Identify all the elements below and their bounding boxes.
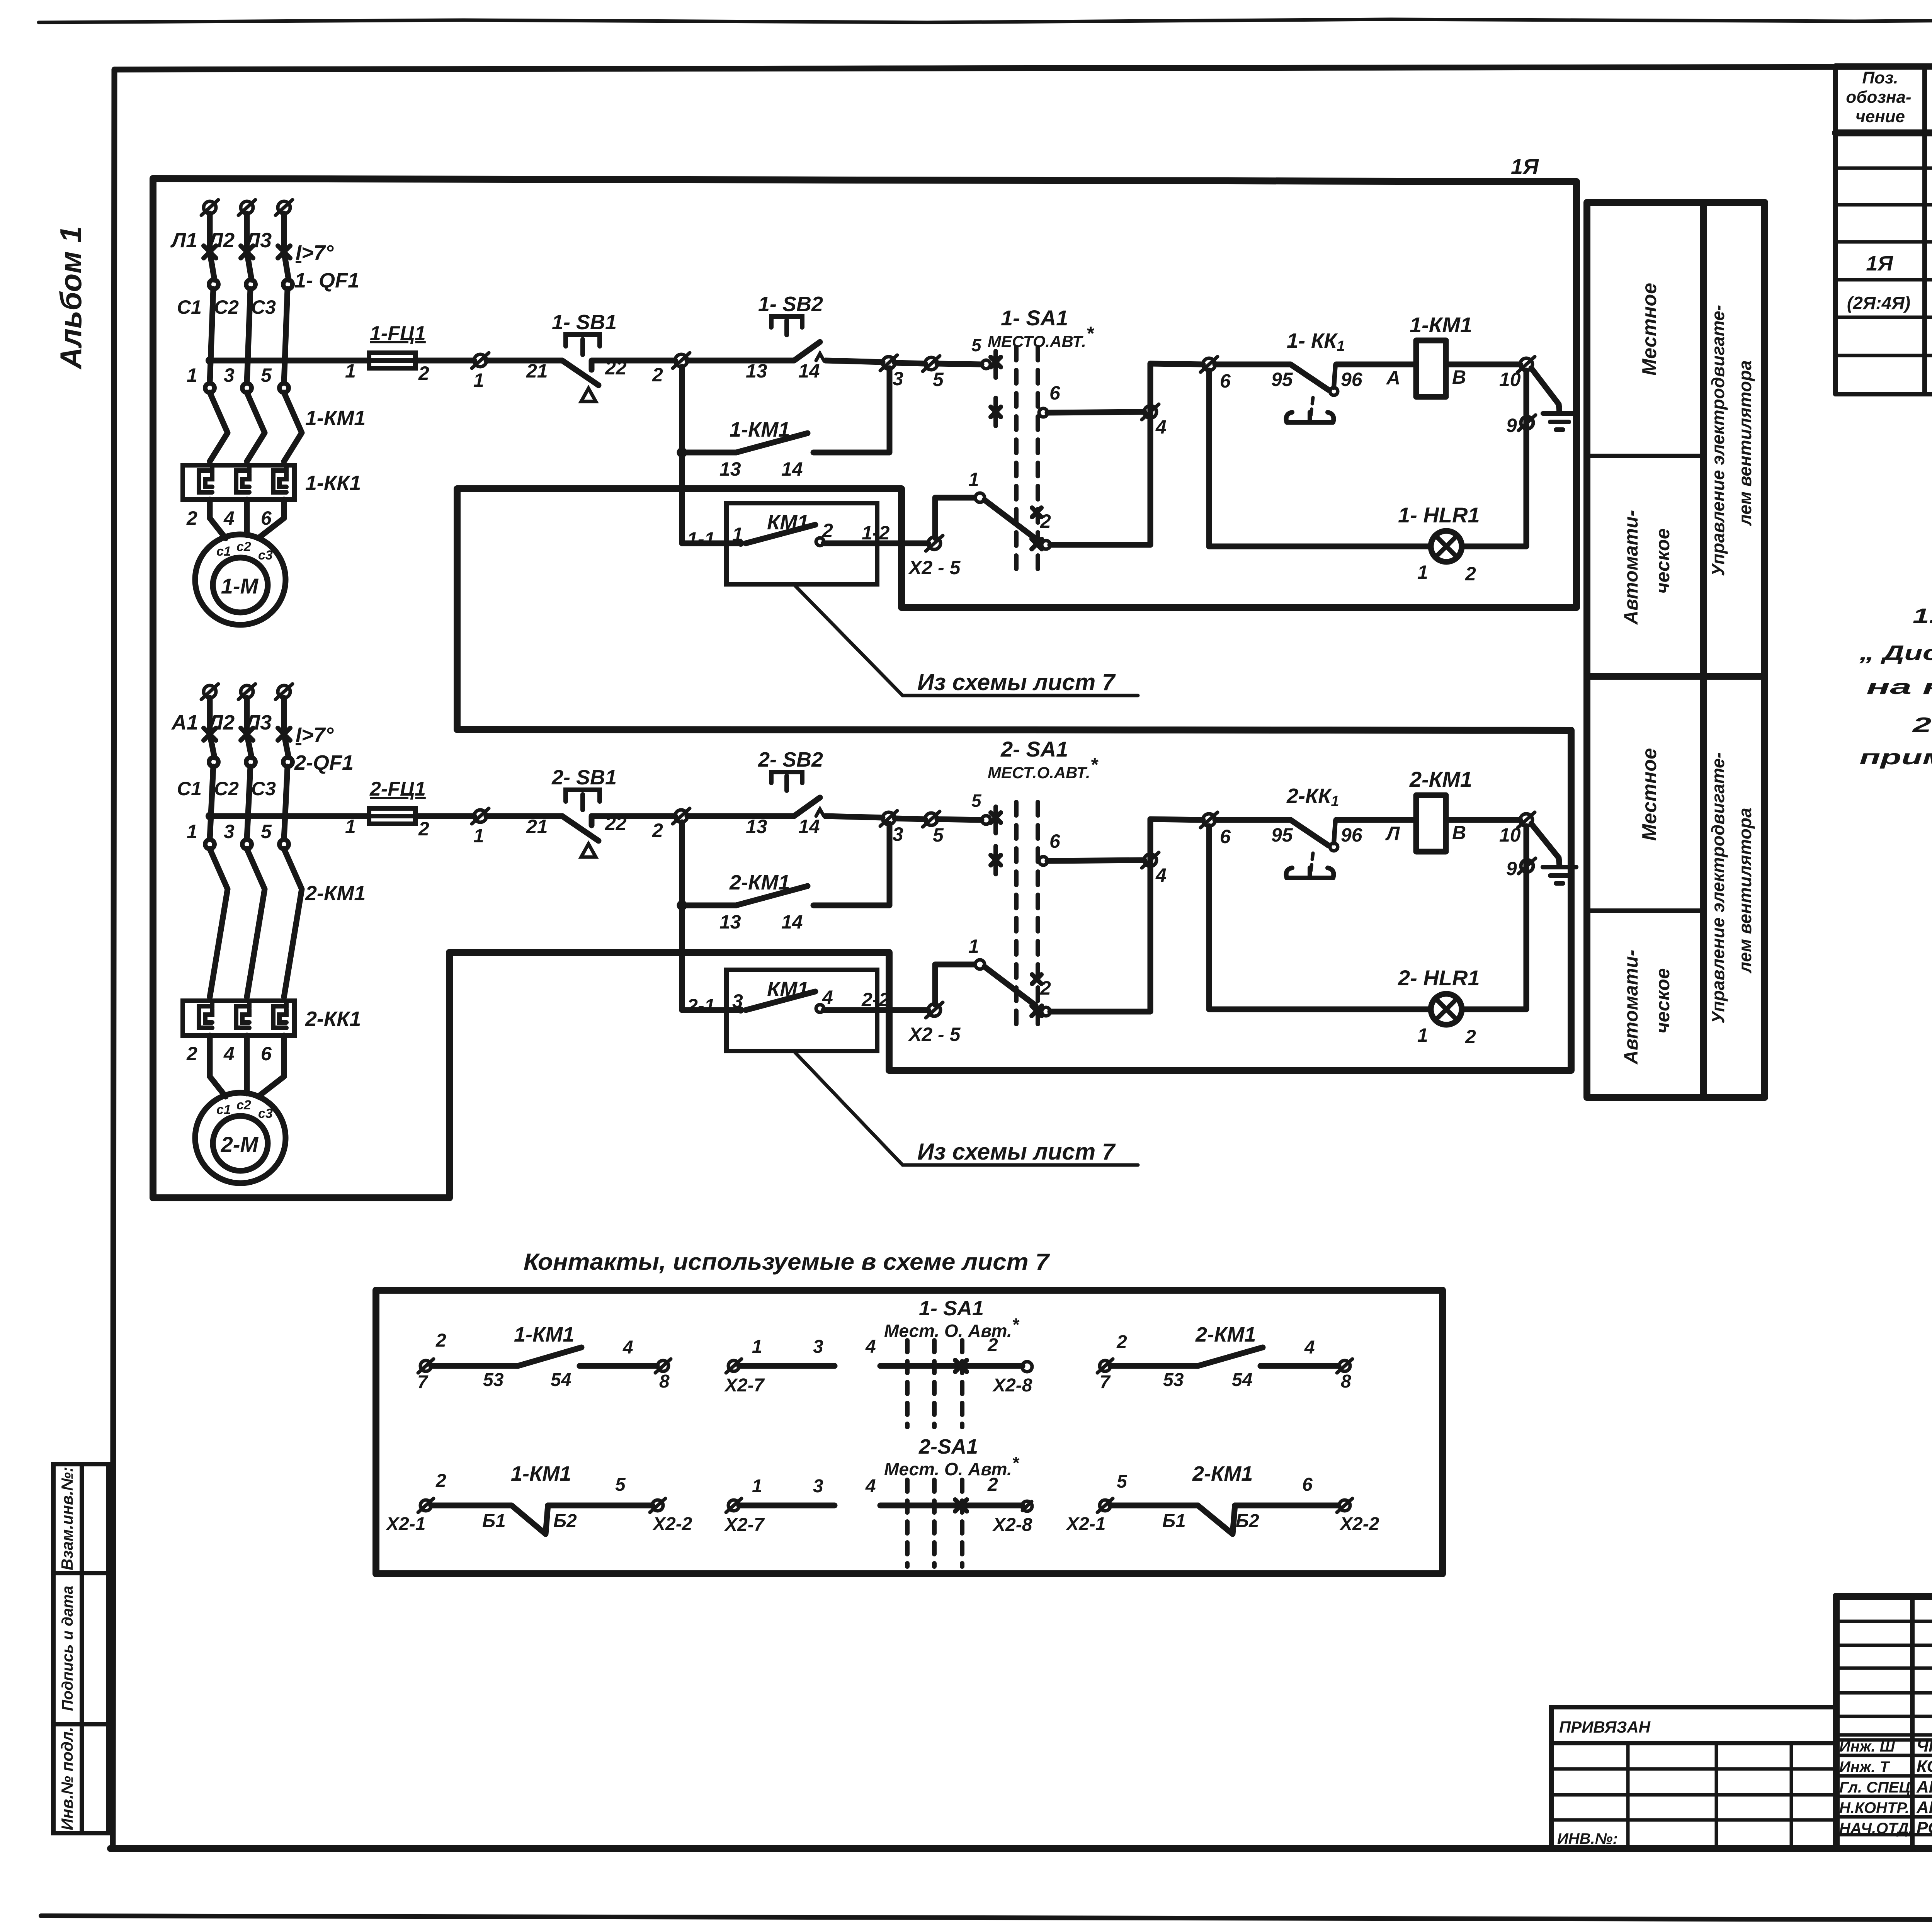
svg-text:5: 5 xyxy=(971,791,982,811)
svg-text:с1: с1 xyxy=(216,1102,231,1117)
svg-text:Х2-8: Х2-8 xyxy=(992,1515,1032,1535)
svg-text:2: 2 xyxy=(418,818,429,840)
wire xyxy=(1050,542,1150,548)
svg-text:9: 9 xyxy=(1506,858,1517,879)
svg-text:5: 5 xyxy=(971,335,982,355)
svg-text:ЧКАЛИНА: ЧКАЛИНА xyxy=(1917,1736,1932,1755)
svg-text:2: 2 xyxy=(652,364,663,386)
phase input terminals А1 Л2 Л3 xyxy=(204,685,216,698)
svg-text:54: 54 xyxy=(1232,1370,1252,1390)
contact 2-KM1 row 2 xyxy=(1100,1500,1111,1511)
control box 1Ya outline (both circuits) xyxy=(153,179,1577,1198)
svg-text:2- SB2: 2- SB2 xyxy=(758,748,823,771)
svg-text:1-2: 1-2 xyxy=(862,522,889,544)
svg-text:5: 5 xyxy=(261,821,272,842)
svg-text:1- SB1: 1- SB1 xyxy=(552,311,617,334)
svg-text:96: 96 xyxy=(1341,824,1363,846)
svg-text:1- SB2: 1- SB2 xyxy=(758,293,823,316)
svg-text:2- HLR1: 2- HLR1 xyxy=(1398,966,1480,990)
svg-text:1-КК1: 1-КК1 xyxy=(305,471,361,495)
section label column (right side) xyxy=(1587,202,1765,1097)
svg-text:2-КМ1: 2-КМ1 xyxy=(1192,1462,1253,1485)
svg-text:2: 2 xyxy=(435,1471,446,1491)
svg-text:2- SA1: 2- SA1 xyxy=(1000,737,1068,761)
terminal 3 xyxy=(883,357,895,369)
svg-text:1-КМ1: 1-КМ1 xyxy=(1410,313,1472,337)
svg-text:1- HLR1: 1- HLR1 xyxy=(1398,503,1480,527)
SA1 contact row 2 xyxy=(993,398,998,426)
svg-text:2- SB1: 2- SB1 xyxy=(551,766,617,789)
svg-text:Л1: Л1 xyxy=(170,229,197,252)
svg-text:13: 13 xyxy=(719,458,741,480)
svg-text:3: 3 xyxy=(224,821,235,842)
svg-text:2-КМ1: 2-КМ1 xyxy=(729,871,790,894)
svg-text:3: 3 xyxy=(893,368,903,389)
svg-text:1: 1 xyxy=(473,369,484,391)
svg-text:6: 6 xyxy=(1049,830,1061,852)
wire to SA1 row 1 xyxy=(935,964,974,1005)
svg-text:2: 2 xyxy=(418,362,429,384)
wire xyxy=(486,358,562,364)
terminal link X2-7 row 1 xyxy=(728,1361,739,1371)
svg-text:2: 2 xyxy=(1040,510,1051,532)
svg-text:3: 3 xyxy=(224,364,235,386)
svg-text:1-КМ1: 1-КМ1 xyxy=(514,1323,574,1346)
svg-text:2-1: 2-1 xyxy=(687,995,715,1017)
terminal X2-5 xyxy=(928,537,940,549)
lamp return riser xyxy=(1524,826,1529,1009)
svg-text:2-SA1: 2-SA1 xyxy=(918,1435,978,1458)
riser wire at terminal 4 xyxy=(1148,364,1153,545)
svg-text:54: 54 xyxy=(551,1370,571,1390)
control bus wire xyxy=(210,358,369,364)
svg-text:Управление электродвигате-: Управление электродвигате- xyxy=(1708,305,1728,576)
svg-text:2-КМ1: 2-КМ1 xyxy=(1195,1323,1256,1346)
svg-text:с3: с3 xyxy=(258,548,273,563)
control wire tap junction xyxy=(206,812,214,820)
svg-text:2: 2 xyxy=(652,820,663,841)
svg-text:С2: С2 xyxy=(214,296,239,318)
svg-text:1-1: 1-1 xyxy=(687,528,715,550)
svg-text:1Я: 1Я xyxy=(1866,252,1893,275)
svg-text:1: 1 xyxy=(752,1337,762,1357)
thermal relay heaters 1-КК1 xyxy=(183,465,294,500)
SA1 contact row 2 xyxy=(993,846,998,874)
contact 2-KM1 row 1 xyxy=(1100,1361,1111,1371)
terminal 9 xyxy=(1521,860,1533,872)
drawing frame border xyxy=(114,66,1932,70)
SA1 contact column row 1 xyxy=(982,360,990,369)
ground symbol xyxy=(1531,824,1560,866)
contactor coil 1-КМ1 xyxy=(1416,340,1446,397)
svg-text:5: 5 xyxy=(615,1475,626,1495)
terminal 5 xyxy=(925,357,937,370)
wire xyxy=(687,813,794,819)
svg-text:А1: А1 xyxy=(171,711,198,734)
wire xyxy=(895,363,925,364)
svg-text:6: 6 xyxy=(1049,382,1061,404)
svg-text:8: 8 xyxy=(1341,1371,1351,1392)
auxiliary contact 1-КМ1 13-14 xyxy=(679,367,685,543)
svg-text:Инж. Ш: Инж. Ш xyxy=(1839,1738,1895,1755)
svg-text:применима для системы У2,2: применима для системы У2,2а ; У3,3а ; У4… xyxy=(1859,746,1932,769)
svg-text:Поз.: Поз. xyxy=(1862,68,1898,87)
svg-text:2: 2 xyxy=(435,1330,446,1351)
contact 1-KM1 row 2 xyxy=(420,1500,431,1511)
SA1 lower contact blade xyxy=(985,967,1036,1005)
svg-text:10: 10 xyxy=(1499,824,1521,846)
terminal 10 xyxy=(1520,358,1532,371)
svg-text:2-КМ1: 2-КМ1 xyxy=(305,882,366,905)
svg-text:Х2-1: Х2-1 xyxy=(385,1514,425,1534)
svg-text:ПРИВЯЗАН: ПРИВЯЗАН xyxy=(1559,1718,1651,1736)
lamp return riser xyxy=(1524,371,1529,546)
svg-text:1: 1 xyxy=(968,935,979,957)
SA1 contact column row 1 xyxy=(982,816,990,824)
wire to SA1 row 1 xyxy=(935,498,974,538)
svg-text:лем вентилятора: лем вентилятора xyxy=(1735,360,1755,526)
wire 1-2 xyxy=(824,541,928,546)
svg-text:Х2 - 5: Х2 - 5 xyxy=(908,1024,961,1045)
svg-text:В: В xyxy=(1452,822,1466,844)
svg-text:2-КМ1: 2-КМ1 xyxy=(1409,767,1472,791)
auxiliary contact 2-КМ1 13-14 xyxy=(679,822,685,1010)
svg-text:на надпись „ Авт. ”: на надпись „ Авт. ” xyxy=(1866,675,1932,699)
svg-text:4: 4 xyxy=(865,1476,876,1497)
svg-text:1: 1 xyxy=(732,524,743,545)
wire xyxy=(415,813,474,819)
svg-text:1: 1 xyxy=(345,816,356,837)
svg-text:АГЕЕВ: АГЕЕВ xyxy=(1916,1798,1932,1817)
svg-text:1: 1 xyxy=(187,364,197,386)
svg-text:2-М: 2-М xyxy=(221,1132,259,1156)
svg-text:2: 2 xyxy=(186,507,197,529)
svg-text:ческое: ческое xyxy=(1652,528,1673,594)
svg-text:21: 21 xyxy=(526,816,548,837)
svg-text:5: 5 xyxy=(1117,1471,1128,1492)
svg-text:1Я: 1Я xyxy=(1511,154,1539,179)
circuit breaker 1- QF1 xyxy=(204,246,216,258)
contacts box xyxy=(376,1290,1442,1574)
svg-text:1-М: 1-М xyxy=(221,574,259,598)
svg-text:2-QF1: 2-QF1 xyxy=(294,751,354,774)
svg-text:13: 13 xyxy=(746,816,767,837)
svg-text:2: 2 xyxy=(1465,1026,1476,1048)
svg-text:С1: С1 xyxy=(177,778,202,799)
svg-text:3: 3 xyxy=(813,1476,823,1497)
terminal link X2-7 row 2 xyxy=(728,1500,739,1511)
contactor main contacts 2-КМ1 xyxy=(205,840,214,849)
fuse 1-FЦ1 xyxy=(369,353,415,368)
svg-text:С1: С1 xyxy=(177,296,202,318)
terminal X2-5 xyxy=(928,1004,940,1016)
svg-text:2: 2 xyxy=(1040,977,1051,999)
svg-text:10: 10 xyxy=(1499,369,1521,390)
svg-text:2: 2 xyxy=(1116,1332,1127,1352)
svg-text:Х2-7: Х2-7 xyxy=(724,1375,765,1396)
svg-text:6: 6 xyxy=(1220,370,1231,392)
svg-text:2-КК1: 2-КК1 xyxy=(305,1007,361,1031)
svg-text:РОЗАНОВ: РОЗАНОВ xyxy=(1917,1818,1932,1837)
SA1 lower contact blade xyxy=(985,500,1036,539)
svg-text:Из схемы лист 7: Из схемы лист 7 xyxy=(917,1139,1116,1165)
svg-text:с2: с2 xyxy=(236,1098,251,1112)
svg-text:2: 2 xyxy=(987,1335,998,1355)
svg-text:Из схемы лист 7: Из схемы лист 7 xyxy=(917,669,1116,695)
svg-text:Инж. Т: Инж. Т xyxy=(1839,1759,1891,1776)
svg-text:Альбом 1: Альбом 1 xyxy=(54,226,88,370)
svg-text:КОЗЛОВА: КОЗЛОВА xyxy=(1917,1757,1932,1776)
contact 1-KM1 row 1 xyxy=(420,1361,431,1371)
wire xyxy=(1150,819,1203,820)
title small grid xyxy=(1836,1620,1932,1623)
svg-text:2: 2 xyxy=(987,1475,998,1495)
svg-text:Взам.инв.№:: Взам.инв.№: xyxy=(58,1467,76,1570)
svg-text:Х2-1: Х2-1 xyxy=(1065,1514,1105,1534)
control bus wire xyxy=(210,813,369,819)
svg-text:5: 5 xyxy=(933,369,944,390)
motor 1-М xyxy=(195,534,286,625)
thermal element mark xyxy=(1311,853,1313,872)
svg-text:4: 4 xyxy=(1155,416,1167,438)
terminal 6 xyxy=(1203,358,1215,371)
svg-text:с3: с3 xyxy=(258,1106,273,1121)
svg-text:1- QF1: 1- QF1 xyxy=(294,269,359,292)
svg-text:2-FЦ1: 2-FЦ1 xyxy=(369,778,426,800)
svg-text:1-КМ1: 1-КМ1 xyxy=(305,406,366,430)
svg-text:Б2: Б2 xyxy=(553,1511,577,1531)
svg-text:Х2 - 5: Х2 - 5 xyxy=(908,557,961,578)
svg-text:2: 2 xyxy=(186,1043,197,1065)
svg-text:1-FЦ1: 1-FЦ1 xyxy=(370,322,426,345)
paper top edge line xyxy=(39,18,1932,22)
wire xyxy=(415,358,474,364)
svg-text:А: А xyxy=(1386,367,1400,389)
phase input terminals Л1 Л2 Л3 xyxy=(204,201,216,214)
svg-text:2. Схема выполнена для сис: 2. Схема выполнена для системы У1,1а и xyxy=(1912,713,1932,736)
svg-text:АГЕЕВ: АГЕЕВ xyxy=(1916,1777,1932,1796)
fuse 2-FЦ1 xyxy=(369,808,415,824)
title block xyxy=(1836,1593,1932,1600)
wire xyxy=(937,364,981,364)
wire xyxy=(1150,364,1203,364)
wire xyxy=(1446,817,1520,823)
leader: from KM1 box to note xyxy=(794,1051,1138,1165)
svg-text:1- КК1: 1- КК1 xyxy=(1287,329,1345,354)
terminal 3 xyxy=(883,812,895,825)
svg-text:14: 14 xyxy=(781,458,803,480)
svg-text:96: 96 xyxy=(1341,369,1363,390)
svg-text:1. В ящике управления Я5115: 1. В ящике управления Я5115 - 3474УХЛ4 н… xyxy=(1913,604,1932,628)
wire xyxy=(1050,1009,1150,1015)
svg-text:1- SA1: 1- SA1 xyxy=(919,1297,984,1320)
svg-text:Инв.№ подл.: Инв.№ подл. xyxy=(58,1727,76,1830)
svg-text:21: 21 xyxy=(526,360,548,382)
svg-text:3: 3 xyxy=(732,990,743,1012)
svg-text:7: 7 xyxy=(417,1372,429,1393)
svg-text:Х2-2: Х2-2 xyxy=(652,1514,692,1534)
svg-text:лем вентилятора: лем вентилятора xyxy=(1735,808,1755,973)
signature rows xyxy=(1836,1733,1932,1737)
svg-text:„ Дист. ” на переключателях: „ Дист. ” на переключателях 1- SA1, 2- S… xyxy=(1859,641,1932,665)
wire xyxy=(825,361,883,362)
terminal 1 xyxy=(474,810,486,822)
svg-text:14: 14 xyxy=(798,360,820,382)
wire xyxy=(687,358,794,364)
ground symbol xyxy=(1531,368,1560,413)
svg-text:1: 1 xyxy=(752,1476,762,1497)
svg-text:1: 1 xyxy=(1417,561,1428,583)
svg-text:Х2-2: Х2-2 xyxy=(1339,1514,1379,1534)
svg-text:чение: чение xyxy=(1855,107,1905,126)
left margin stamp boxes xyxy=(53,1464,109,1833)
svg-text:ческое: ческое xyxy=(1652,968,1673,1033)
svg-text:Гл. СПЕЦ.: Гл. СПЕЦ. xyxy=(1839,1779,1915,1796)
wire xyxy=(937,819,981,820)
specification table xyxy=(1833,66,1838,394)
svg-text:2-2: 2-2 xyxy=(861,989,889,1010)
circuit breaker 2-QF1 xyxy=(204,728,216,740)
svg-text:С2: С2 xyxy=(214,778,239,799)
svg-text:13: 13 xyxy=(719,911,741,933)
svg-text:6: 6 xyxy=(261,1043,272,1065)
svg-text:С3: С3 xyxy=(251,296,276,318)
wire 2-1 xyxy=(682,1007,741,1013)
svg-text:8: 8 xyxy=(659,1371,670,1392)
motor 2-М xyxy=(195,1093,286,1183)
terminal 9 xyxy=(1521,417,1533,429)
svg-text:1: 1 xyxy=(345,360,356,382)
svg-text:Автомати-: Автомати- xyxy=(1620,950,1642,1065)
terminal 10 xyxy=(1520,814,1532,826)
svg-text:1: 1 xyxy=(473,825,484,847)
svg-text:5: 5 xyxy=(261,364,272,386)
svg-text:с2: с2 xyxy=(236,539,251,554)
svg-text:1- SA1: 1- SA1 xyxy=(1001,306,1068,330)
svg-text:Б1: Б1 xyxy=(482,1511,506,1531)
svg-text:6: 6 xyxy=(1220,826,1231,847)
svg-text:В: В xyxy=(1452,366,1466,388)
svg-text:4: 4 xyxy=(223,507,235,529)
svg-text:Местное: Местное xyxy=(1638,283,1661,376)
svg-text:3: 3 xyxy=(813,1337,823,1357)
interlock contact box KM1 (from sheet 7) xyxy=(726,503,877,584)
SA1 dashed frame lines xyxy=(1014,802,1019,1025)
wire xyxy=(1446,362,1520,367)
svg-text:1: 1 xyxy=(968,469,979,490)
svg-text:Контакты, используемые в: Контакты, используемые в схеме лист 7 xyxy=(524,1249,1050,1275)
svg-text:Управление электродвигате-: Управление электродвигате- xyxy=(1708,752,1728,1024)
svg-text:Б2: Б2 xyxy=(1236,1511,1259,1531)
terminal 2 xyxy=(675,810,687,822)
terminal 6 xyxy=(1203,814,1215,826)
contactor main contacts 1-КМ1 xyxy=(205,383,214,393)
svg-text:(2Я:4Я): (2Я:4Я) xyxy=(1847,293,1910,313)
svg-text:13: 13 xyxy=(746,360,767,382)
svg-text:1: 1 xyxy=(187,821,197,842)
terminal 2 xyxy=(675,354,687,367)
contactor coil 2-КМ1 xyxy=(1416,795,1446,852)
wire 2-2 xyxy=(824,1007,928,1013)
wire xyxy=(592,816,675,825)
svg-text:Н.КОНТР.: Н.КОНТР. xyxy=(1839,1799,1909,1816)
svg-text:53: 53 xyxy=(1163,1370,1184,1390)
wire xyxy=(486,813,562,819)
thermal relay heaters 2-КК1 xyxy=(183,1001,294,1036)
wire xyxy=(592,361,675,370)
svg-text:4: 4 xyxy=(622,1337,633,1358)
svg-text:6: 6 xyxy=(1302,1475,1313,1495)
svg-text:НАЧ.ОТД.: НАЧ.ОТД. xyxy=(1839,1820,1913,1837)
terminal 1 xyxy=(474,354,486,367)
svg-text:Б1: Б1 xyxy=(1162,1511,1186,1531)
wire xyxy=(1336,362,1416,367)
svg-text:14: 14 xyxy=(798,816,820,837)
svg-text:обозна-: обозна- xyxy=(1846,88,1911,107)
svg-text:4: 4 xyxy=(1304,1337,1315,1358)
control wire tap junction xyxy=(206,356,214,365)
svg-text:с1: с1 xyxy=(216,544,231,559)
svg-text:1: 1 xyxy=(1417,1024,1428,1046)
svg-text:Х2-8: Х2-8 xyxy=(992,1375,1032,1396)
svg-text:5: 5 xyxy=(933,824,944,846)
svg-text:2: 2 xyxy=(1465,563,1476,585)
paper bottom edge line xyxy=(41,1916,1932,1921)
svg-text:ИНВ.№:: ИНВ.№: xyxy=(1557,1830,1618,1847)
svg-text:Автомати-: Автомати- xyxy=(1620,510,1642,625)
SA1 dashed frame lines xyxy=(1014,347,1019,570)
svg-text:I>7°: I>7° xyxy=(296,723,334,747)
svg-text:9: 9 xyxy=(1506,415,1517,436)
svg-text:Х2-7: Х2-7 xyxy=(724,1515,765,1535)
riser wire at terminal 4 xyxy=(1148,819,1153,1012)
svg-text:4: 4 xyxy=(865,1337,876,1357)
svg-text:Подпись и дата: Подпись и дата xyxy=(59,1586,76,1711)
terminal 5 xyxy=(925,813,937,825)
svg-text:7: 7 xyxy=(1100,1372,1111,1393)
wire xyxy=(1336,817,1416,823)
svg-text:4: 4 xyxy=(822,986,833,1008)
wire xyxy=(825,816,883,818)
svg-text:Л: Л xyxy=(1385,823,1400,844)
interlock contact box KM1 (from sheet 7) xyxy=(726,970,877,1051)
svg-text:3: 3 xyxy=(893,823,903,845)
wire xyxy=(895,818,925,819)
svg-text:С3: С3 xyxy=(251,778,276,799)
svg-text:Местное: Местное xyxy=(1638,748,1661,841)
svg-text:95: 95 xyxy=(1271,369,1293,390)
leader: from KM1 box to note xyxy=(794,584,1138,696)
svg-text:1-КМ1: 1-КМ1 xyxy=(730,418,790,441)
svg-text:2: 2 xyxy=(822,520,833,541)
svg-text:14: 14 xyxy=(781,911,803,933)
svg-text:95: 95 xyxy=(1271,824,1293,846)
privyazan box xyxy=(1551,1707,1836,1849)
svg-text:4: 4 xyxy=(223,1043,235,1065)
svg-text:I>7°: I>7° xyxy=(296,241,334,264)
wire 1-1 xyxy=(682,541,741,546)
svg-text:4: 4 xyxy=(1155,864,1167,886)
svg-text:53: 53 xyxy=(483,1370,504,1390)
svg-text:1-КМ1: 1-КМ1 xyxy=(511,1462,571,1485)
thermal element mark xyxy=(1311,398,1313,417)
